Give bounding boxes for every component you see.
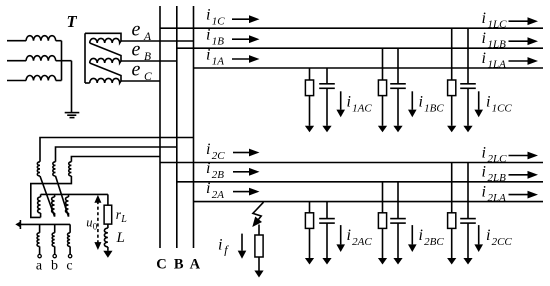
capacitor C i2BC plates: [390, 218, 406, 220]
ground: [65, 112, 80, 114]
svg-text:2LC: 2LC: [488, 153, 508, 165]
resistor branch ground arrow: [382, 228, 384, 258]
svg-text:i: i: [486, 94, 490, 111]
PT primary coil 1: [37, 162, 40, 176]
svg-text:i: i: [206, 46, 210, 63]
current arrow i1AC: [340, 91, 342, 109]
svg-text:i: i: [482, 144, 486, 161]
source diagonal 1: [90, 43, 121, 61]
resistor branch R i2BC wire: [382, 182, 384, 213]
primary winding phase 1 coil: [26, 36, 56, 41]
PT primary coil 3: [69, 162, 72, 176]
tertiary coil b: [54, 224, 56, 232]
line i2C: [160, 162, 543, 164]
line i2A: [194, 201, 544, 203]
svg-text:A: A: [143, 31, 152, 43]
svg-text:C: C: [156, 257, 166, 273]
tertiary output arrow: [19, 220, 21, 229]
primary winding phase 3 coil: [26, 76, 56, 81]
PT coil3 bottom link: [31, 176, 72, 217]
svg-text:b: b: [51, 259, 58, 274]
capacitor branch ground arrow: [467, 88, 469, 126]
capacitor C i1AC plates: [319, 83, 335, 85]
line i1B: [177, 47, 543, 49]
arrow i1LC: [509, 20, 528, 22]
svg-text:2BC: 2BC: [424, 236, 444, 248]
primary winding phase 2 lead: [7, 60, 26, 62]
svg-text:i: i: [218, 237, 222, 254]
svg-text:A: A: [190, 257, 201, 273]
svg-text:1BC: 1BC: [424, 103, 444, 115]
source diagonal 2: [90, 63, 121, 81]
bus A: [193, 6, 195, 248]
capacitor C i1CC plates: [460, 83, 476, 85]
PT tap phase C: [71, 157, 160, 162]
capacitor C i2CC plates: [460, 218, 476, 220]
resistor branch R i1CC wire: [451, 28, 453, 80]
PT zigzag diagonal 2: [56, 176, 69, 217]
resistor branch R i1BC wire: [382, 48, 384, 80]
svg-text:e: e: [132, 39, 141, 61]
capacitor branch C i1CC wire: [467, 28, 469, 84]
svg-text:C: C: [144, 71, 152, 83]
capacitor branch C i1AC wire: [326, 68, 328, 84]
svg-text:2A: 2A: [212, 189, 225, 201]
primary winding phase 1 right lead: [56, 40, 62, 42]
svg-text:i: i: [486, 227, 490, 244]
svg-text:2LA: 2LA: [488, 192, 507, 204]
tertiary bus: [20, 223, 70, 225]
resistor R i1BC: [378, 80, 386, 96]
line i2B: [177, 181, 543, 183]
current arrow i2BC: [411, 225, 413, 244]
capacitor C i2AC plates: [319, 218, 335, 220]
current arrow i2CC: [478, 225, 480, 244]
svg-text:i: i: [347, 227, 351, 244]
u0 dashed arrow: [97, 201, 99, 244]
fault resistor: [255, 235, 263, 257]
PT secondary coil 1: [40, 194, 42, 197]
svg-text:i: i: [482, 164, 486, 181]
svg-text:2C: 2C: [212, 150, 226, 162]
capacitor C i1BC plates: [390, 83, 406, 85]
fault lightning bolt: [253, 202, 264, 221]
resistor R i1AC: [305, 80, 313, 96]
svg-text:i: i: [206, 160, 210, 177]
arrow i2B: [233, 171, 249, 173]
primary winding phase 1 lead: [7, 40, 26, 42]
svg-text:1AC: 1AC: [352, 103, 372, 115]
svg-text:2B: 2B: [212, 169, 225, 181]
terminal a: [38, 254, 41, 257]
wire rL to L: [107, 224, 109, 228]
arrow i1LB: [509, 40, 528, 42]
capacitor branch C i2BC wire: [397, 182, 399, 219]
svg-text:i: i: [482, 50, 486, 67]
resistor R i2AC: [305, 213, 313, 229]
PT tap phase A: [40, 138, 194, 162]
capacitor branch C i1BC wire: [397, 48, 399, 84]
current arrow i2AC: [340, 225, 342, 244]
svg-text:B: B: [174, 257, 184, 273]
primary winding phase 3 lead: [7, 80, 26, 82]
source coil eC: [90, 78, 121, 83]
arrow i2A: [233, 191, 249, 193]
arrow i2LA: [509, 194, 528, 196]
primary neutral vertical: [61, 41, 63, 81]
source top frame: [85, 33, 121, 41]
svg-text:T: T: [67, 12, 78, 31]
line i1C: [160, 27, 543, 29]
neutral ground arrow: [107, 247, 109, 251]
svg-text:1B: 1B: [212, 36, 225, 48]
resistor rL: [104, 205, 112, 224]
source coil eA: [90, 38, 121, 43]
svg-text:c: c: [66, 259, 72, 274]
fault ground arrow: [258, 257, 260, 271]
svg-text:L: L: [120, 214, 127, 225]
svg-text:i: i: [419, 227, 423, 244]
wire eA: [121, 40, 194, 42]
capacitor branch ground arrow: [467, 223, 469, 258]
svg-text:1A: 1A: [212, 55, 225, 67]
resistor branch R i2AC wire: [309, 202, 311, 213]
PT secondary coil 2: [54, 194, 56, 197]
svg-text:i: i: [482, 183, 486, 200]
inductor L: [104, 228, 108, 247]
tertiary coil c: [69, 224, 71, 232]
svg-text:2LB: 2LB: [488, 172, 507, 184]
resistor branch ground arrow: [451, 228, 453, 258]
capacitor branch ground arrow: [326, 88, 328, 126]
svg-text:1CC: 1CC: [492, 103, 513, 115]
PT secondary rail: [41, 193, 108, 195]
resistor R i2BC: [378, 213, 386, 229]
capacitor branch C i2CC wire: [467, 163, 469, 219]
svg-text:0: 0: [93, 221, 98, 231]
resistor R i1CC: [448, 80, 456, 96]
svg-text:1LB: 1LB: [488, 39, 507, 51]
svg-text:i: i: [482, 30, 486, 47]
PT zigzag diagonal 1: [40, 176, 55, 217]
arrow i1C: [232, 18, 249, 20]
bus B: [176, 6, 178, 248]
svg-text:i: i: [419, 94, 423, 111]
resistor branch ground arrow: [309, 96, 311, 126]
svg-text:i: i: [206, 7, 210, 24]
svg-text:i: i: [482, 10, 486, 27]
source coil eB: [90, 58, 121, 63]
svg-text:i: i: [347, 94, 351, 111]
svg-text:1LA: 1LA: [488, 58, 507, 70]
tertiary coil a: [39, 224, 41, 232]
primary winding phase 2 coil: [26, 56, 56, 61]
fault wire: [258, 225, 260, 236]
bus C: [159, 6, 161, 248]
arrow i1B: [232, 38, 249, 40]
svg-text:i: i: [206, 27, 210, 44]
svg-text:u: u: [86, 215, 92, 229]
arrow i1LA: [509, 60, 528, 62]
arrow i2LC: [509, 155, 528, 157]
resistor branch ground arrow: [382, 96, 384, 126]
capacitor branch ground arrow: [326, 223, 328, 258]
resistor branch R i2CC wire: [451, 163, 453, 213]
svg-text:i: i: [206, 141, 210, 158]
source left rail: [84, 33, 86, 83]
resistor branch ground arrow: [451, 96, 453, 126]
svg-text:e: e: [132, 59, 141, 81]
line i1A: [194, 67, 544, 69]
svg-text:i: i: [206, 180, 210, 197]
resistor branch ground arrow: [309, 228, 311, 258]
arrow i1A: [232, 58, 249, 60]
primary neutral stub: [62, 60, 72, 62]
current arrow i1CC: [478, 91, 480, 109]
svg-text:B: B: [144, 51, 151, 63]
primary winding phase 3 right lead: [56, 80, 62, 82]
arrow i2C: [233, 152, 249, 154]
resistor branch R i1AC wire: [309, 68, 311, 80]
wire eB: [121, 60, 177, 62]
svg-text:2AC: 2AC: [352, 236, 372, 248]
current arrow i1BC: [411, 91, 413, 109]
terminal c: [68, 254, 71, 257]
svg-text:a: a: [36, 259, 43, 274]
PT tap phase B: [56, 147, 177, 162]
primary winding phase 2 right lead: [56, 60, 62, 62]
resistor R i2CC: [448, 213, 456, 229]
svg-text:e: e: [132, 19, 141, 41]
source rail to coil eC: [85, 82, 90, 84]
svg-text:L: L: [116, 230, 125, 246]
terminal b: [53, 254, 56, 257]
PT secondary coil 3: [68, 194, 70, 197]
wire eC: [121, 80, 160, 82]
PT primary coil 2: [53, 162, 56, 176]
capacitor branch ground arrow: [397, 223, 399, 258]
arrow if: [241, 234, 243, 251]
arrow i2LB: [509, 174, 528, 176]
primary ground lead: [71, 61, 73, 113]
svg-text:1LC: 1LC: [488, 19, 508, 31]
capacitor branch ground arrow: [397, 88, 399, 126]
svg-text:1C: 1C: [212, 16, 226, 28]
capacitor branch C i2AC wire: [326, 202, 328, 219]
svg-text:2CC: 2CC: [492, 236, 513, 248]
neutral branch wire: [107, 194, 109, 205]
svg-text:f: f: [224, 243, 229, 257]
